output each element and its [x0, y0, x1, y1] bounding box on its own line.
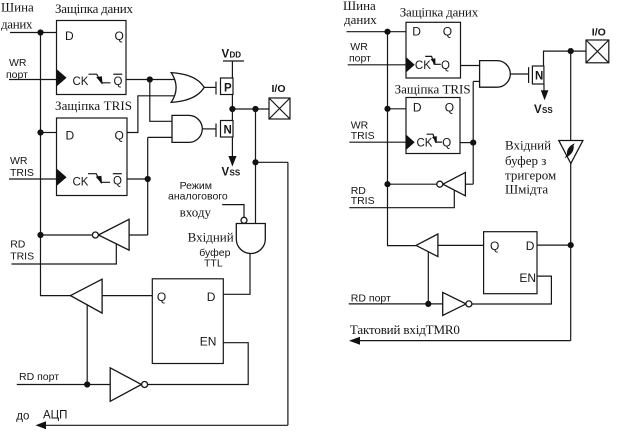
svg-text:V: V	[534, 104, 542, 116]
svg-text:N: N	[224, 125, 232, 137]
label: WR TRIS	[10, 155, 34, 179]
RD TRIS buffer G4 (points left)	[92, 219, 129, 250]
svg-text:Тактовий вхідTMR0: Тактовий вхідTMR0	[350, 322, 460, 337]
svg-text:Q: Q	[490, 239, 499, 253]
junction: I/O feedback node	[252, 106, 258, 112]
wire: G5 enable down to RD порт line	[86, 304, 88, 384]
junction: Q-bar node	[147, 76, 153, 82]
junction: bus / D data latch (right)	[384, 29, 390, 35]
svg-text:TRIS: TRIS	[10, 167, 34, 179]
falling-edge symbol (U4)	[425, 56, 441, 65]
wire: U3 Q to read buffer	[102, 295, 152, 297]
svg-text:V: V	[222, 167, 230, 179]
wire: vertical line to ADC	[287, 162, 289, 425]
latch U5: TRIS latch body (right)	[406, 98, 460, 154]
svg-text:даних: даних	[344, 12, 377, 27]
wire: WR порт to CK of U1	[9, 79, 57, 81]
read buffer G5 (tri-state, points left)	[71, 279, 103, 313]
RD порт buffer G13 (points right)	[443, 292, 472, 315]
junction: RD порт / G5 enable	[84, 381, 90, 387]
wire: bus to D of U2	[41, 132, 57, 134]
junction: bus / RD TRIS buffer output	[37, 232, 43, 238]
wire: right vertical bus	[388, 32, 417, 246]
wire: WR TRIS to CK of U5	[349, 141, 406, 143]
label: до АЦП	[16, 410, 67, 423]
transistor Q3 (N-channel, right)	[529, 66, 544, 84]
svg-text:EN: EN	[200, 335, 217, 349]
svg-text:Q: Q	[441, 60, 450, 72]
wire: U2 Q-bar to node	[127, 178, 148, 180]
svg-text:Q: Q	[443, 25, 452, 39]
wire: TRIS-bar to AND bottom input	[473, 80, 480, 82]
wire: RD TRIS enable line	[12, 244, 117, 264]
wire: U4 Q-bar to AND top input	[461, 65, 481, 67]
junction: D / Schmitt line node	[568, 242, 574, 248]
net label: Шина даних (data bus)	[1, 0, 34, 32]
label: Вхідний буфер TTL	[188, 230, 234, 270]
svg-text:Q: Q	[157, 290, 166, 304]
wire: AND output to N gate	[202, 128, 216, 130]
wire: WR порт to CK of U4	[348, 64, 406, 66]
wire: TMR0 clock arrow line	[349, 337, 571, 345]
svg-text:V: V	[222, 49, 230, 61]
latch U3: input latch body	[152, 279, 223, 364]
wire: AND output to N gate (right)	[510, 73, 528, 75]
svg-text:RD порт: RD порт	[351, 292, 391, 304]
junction: TRIS Q-bar node	[145, 176, 151, 182]
svg-text:буфер з: буфер з	[505, 153, 546, 168]
wire: TRIS-bar to AND gate bottom input	[148, 136, 174, 138]
clock input triangle (U4)	[406, 57, 415, 73]
svg-text:Защіпка TRIS: Защіпка TRIS	[395, 82, 471, 97]
junction: RD порт / G12 enable	[425, 301, 431, 307]
wire: RD порт line (right)	[349, 303, 443, 305]
junction: TRIS Q-bar node (right)	[470, 140, 476, 146]
wire: G12 output into latch Q	[438, 244, 484, 246]
wire: TTL buffer output to D of input latch	[223, 254, 250, 295]
wire: data bus into D of data latch (right)	[347, 31, 407, 33]
svg-text:Защіпка TRIS: Защіпка TRIS	[55, 98, 132, 113]
label: WR порт (right)	[349, 41, 371, 65]
clock input triangle (U5)	[406, 135, 415, 151]
svg-text:DD: DD	[230, 51, 242, 60]
svg-text:WR: WR	[10, 155, 28, 167]
svg-text:D: D	[526, 239, 535, 253]
wire: RD TRIS enable line (right)	[349, 190, 454, 208]
svg-text:даних: даних	[1, 17, 33, 32]
wire: node to N drain	[231, 109, 233, 121]
label: WR TRIS (right)	[351, 120, 375, 143]
latch U2: TRIS latch body	[57, 118, 128, 196]
junction: bus / D TRIS latch (right)	[384, 106, 390, 112]
I/O pad (left)	[269, 98, 290, 119]
AND gate G9 (right)	[480, 61, 511, 88]
wire: G12 enable down to RD порт line	[427, 252, 429, 304]
svg-text:D: D	[66, 129, 75, 143]
svg-text:TTL: TTL	[204, 258, 223, 270]
svg-text:RD: RD	[10, 239, 26, 251]
svg-text:D: D	[412, 25, 421, 39]
svg-text:RD порт: RD порт	[19, 371, 59, 383]
latch U4: data latch body (right)	[406, 22, 461, 78]
svg-text:Q: Q	[115, 29, 124, 43]
svg-text:Шина: Шина	[1, 0, 34, 15]
svg-text:I/O: I/O	[592, 27, 606, 39]
wire: P drain to output node	[231, 95, 233, 110]
Vss symbol with arrow	[222, 137, 241, 179]
svg-text:Вхідний: Вхідний	[505, 138, 551, 153]
wire: data bus into D of data latch	[10, 32, 57, 34]
label: RD TRIS	[10, 239, 34, 263]
wire: Schmitt output down to TMR0 line	[570, 164, 572, 341]
OR gate G1	[171, 73, 204, 103]
label: WR порт	[6, 57, 28, 81]
wire: vertical TRIS-bar net	[147, 137, 149, 235]
svg-text:CK: CK	[73, 177, 89, 189]
junction: bus / D data latch	[37, 29, 43, 35]
wire: G6 output to EN of U3	[148, 343, 248, 385]
wire: до АЦП arrow line	[36, 421, 288, 429]
wire: RD порт line	[17, 384, 110, 386]
svg-text:I/O: I/O	[272, 83, 286, 95]
wire: RD TRIS buffer output to bus (right)	[388, 183, 437, 185]
label: RD TRIS (right)	[351, 185, 375, 207]
inverter bubble on TTL buffer enable	[241, 217, 247, 223]
wire: bus to D of U5	[388, 108, 407, 110]
svg-text:WR: WR	[350, 41, 368, 53]
svg-text:SS: SS	[542, 106, 553, 115]
wire: Schmitt line to D of U6	[537, 244, 571, 246]
svg-text:АЦП: АЦП	[43, 410, 67, 422]
svg-text:входу: входу	[180, 205, 212, 220]
clock input triangle (U2)	[57, 169, 67, 187]
svg-text:тригером: тригером	[505, 168, 556, 183]
wire: TRIS-bar down to RD TRIS buffer input	[129, 234, 148, 236]
wire: TRIS-bar to RD TRIS buffer input (right)	[465, 183, 473, 185]
clock input triangle (U1)	[57, 69, 67, 87]
wire: WR TRIS to CK of U2	[9, 178, 57, 180]
AND gate G2	[172, 115, 202, 142]
svg-text:TRIS: TRIS	[351, 130, 375, 142]
junction: P/N drain node	[229, 106, 235, 112]
svg-text:D: D	[207, 290, 216, 304]
junction: I/O node (right)	[568, 48, 574, 54]
svg-text:CK: CK	[417, 138, 433, 150]
label: Вхідний буфер з тригером Шмідта	[505, 138, 556, 197]
read buffer G12 (points left, lower right)	[416, 234, 438, 257]
wire: U1 Q-bar to OR gate input	[126, 79, 176, 81]
wire: OR output to P gate	[204, 86, 216, 88]
wire: vertical TRIS-bar net (right)	[472, 81, 474, 184]
wire: Vdd to P transistor	[231, 61, 233, 78]
wire: feedback node down	[255, 109, 257, 224]
RD порт buffer G6 (points right)	[110, 368, 147, 402]
Vss symbol with arrow (right)	[534, 84, 553, 116]
I/O pad (right)	[586, 40, 609, 63]
svg-text:CK: CK	[415, 60, 431, 72]
wire: drain node to I/O pad	[232, 108, 269, 110]
svg-text:аналогового: аналогового	[168, 191, 228, 203]
wire: EN of U6 to RD порт buffer output	[472, 276, 552, 304]
svg-text:SS: SS	[230, 169, 241, 178]
falling-edge symbol (U1)	[89, 74, 111, 84]
net label: Шина даних (data bus, right)	[343, 0, 377, 27]
svg-text:Q: Q	[442, 138, 451, 150]
junction: bus / D TRIS latch	[37, 129, 43, 135]
svg-text:до: до	[16, 411, 29, 423]
svg-text:Шмідта: Шмідта	[505, 182, 548, 197]
svg-text:TRIS: TRIS	[351, 195, 375, 207]
wire: I/O node down to Schmitt buffer	[570, 51, 572, 140]
wire: Q-bar node down to AND gate top input	[150, 80, 174, 122]
svg-text:EN: EN	[519, 271, 536, 285]
latch U1: data latch body	[57, 21, 127, 95]
svg-text:D: D	[413, 101, 422, 115]
Schmitt trigger buffer G10	[559, 141, 583, 164]
transistor Q1 (P-channel)	[216, 78, 233, 95]
svg-text:Защіпка даних: Защіпка даних	[55, 1, 134, 16]
wire: analog mode control to TTL buffer enable	[222, 205, 244, 218]
junction: bus / RD TRIS buffer output (right)	[384, 181, 390, 187]
pin label Q-bar (U2)	[113, 174, 122, 188]
svg-text:TRIS: TRIS	[10, 251, 34, 263]
label: Режим аналогового входу	[168, 180, 228, 220]
svg-text:P: P	[224, 83, 232, 95]
svg-text:D: D	[65, 29, 74, 43]
wire: RD TRIS buffer output to bus	[41, 234, 93, 236]
wire: U2 Q up to OR gate bottom input	[127, 96, 176, 133]
wire: left vertical bus	[41, 33, 71, 296]
wire: U5 Q-bar to node	[460, 142, 473, 144]
pin label Q-bar (U1)	[113, 74, 122, 88]
svg-text:Q: Q	[445, 101, 454, 115]
wire: Q3 drain up to I/O line	[544, 51, 587, 66]
Vdd power symbol	[222, 49, 245, 62]
falling-edge symbol (U5)	[427, 134, 443, 143]
RD TRIS buffer G11 (points left)	[437, 172, 466, 195]
svg-text:Q: Q	[113, 176, 122, 188]
svg-text:WR: WR	[9, 57, 27, 69]
svg-text:Защіпка даних: Защіпка даних	[400, 5, 479, 20]
junction: feedback / ADC branch node	[252, 159, 258, 165]
svg-text:Q: Q	[114, 76, 123, 88]
wire: branch to ADC line	[256, 161, 288, 163]
svg-text:Q: Q	[115, 129, 124, 143]
svg-text:порт: порт	[349, 53, 371, 65]
latch U6: input latch body (right)	[484, 232, 537, 294]
TTL input buffer G3	[236, 224, 265, 254]
transistor Q2 (N-channel)	[216, 121, 233, 138]
svg-text:CK: CK	[73, 76, 89, 88]
svg-text:Вхідний: Вхідний	[188, 230, 234, 245]
svg-text:N: N	[535, 71, 543, 83]
falling-edge symbol (U2)	[88, 174, 110, 184]
